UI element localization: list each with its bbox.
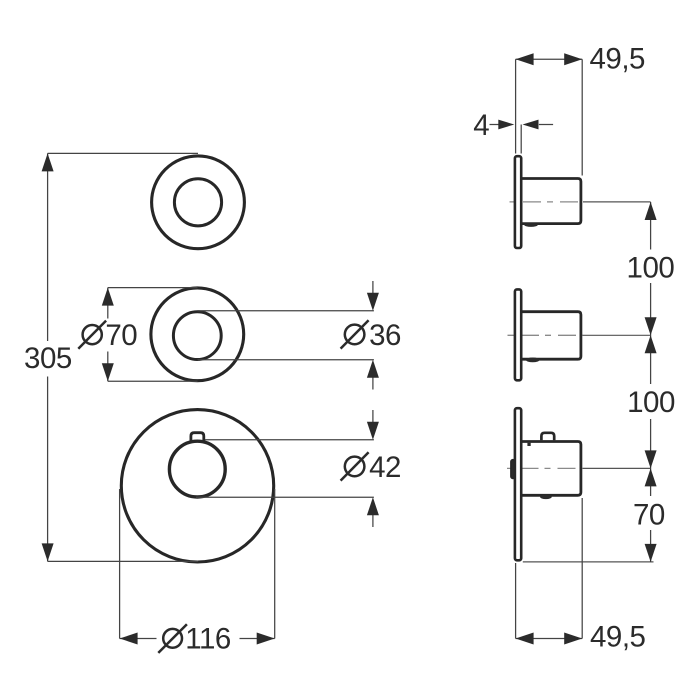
svg-text:100: 100 bbox=[627, 386, 675, 419]
svg-text:4: 4 bbox=[473, 109, 489, 142]
svg-text:42: 42 bbox=[369, 451, 401, 484]
svg-text:70: 70 bbox=[633, 499, 665, 532]
svg-text:70: 70 bbox=[105, 319, 137, 352]
svg-text:36: 36 bbox=[369, 319, 401, 352]
svg-text:49,5: 49,5 bbox=[590, 621, 646, 654]
svg-text:100: 100 bbox=[627, 252, 675, 285]
svg-text:116: 116 bbox=[185, 622, 231, 655]
svg-text:49,5: 49,5 bbox=[590, 43, 646, 76]
svg-text:305: 305 bbox=[24, 342, 72, 375]
